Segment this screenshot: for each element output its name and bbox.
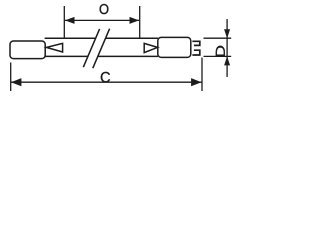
right contact spring upper hairpin bbox=[192, 41, 199, 45]
dimension C line bbox=[11, 81, 202, 83]
tube bottom line left segment bbox=[45, 55, 88, 57]
break slash 1 bbox=[83, 29, 99, 67]
tube top line left segment bbox=[45, 37, 96, 39]
label C bbox=[101, 72, 110, 83]
label O bbox=[100, 4, 109, 14]
tube bottom line right segment bbox=[98, 55, 158, 57]
dimension O right extension line bbox=[139, 6, 141, 39]
tube top line right segment bbox=[106, 37, 158, 39]
dimension C left extension line bbox=[10, 63, 12, 92]
dimension C right extension line bbox=[201, 58, 203, 92]
dimension O right arrowhead bbox=[130, 17, 140, 24]
right pinch seal triangle bbox=[144, 43, 157, 52]
dimension D line bbox=[226, 19, 228, 77]
dimension O left extension line bbox=[63, 6, 65, 38]
right contact spring lower hairpin bbox=[192, 50, 199, 55]
dimension D bottom extension line bbox=[204, 55, 232, 57]
dimension D top extension line bbox=[204, 37, 232, 39]
dimension C right arrowhead bbox=[191, 78, 201, 86]
left pinch seal triangle bbox=[46, 43, 62, 52]
dimension C left arrowhead bbox=[11, 78, 21, 86]
dimension D bottom arrowhead bbox=[224, 56, 230, 65]
label D bbox=[216, 46, 225, 57]
lamp left cap bbox=[10, 41, 45, 59]
dimension O left arrowhead bbox=[65, 17, 75, 24]
break slash 2 bbox=[93, 29, 110, 68]
lamp right cap bbox=[158, 37, 191, 57]
dimension O line bbox=[65, 19, 139, 21]
dimension D top arrowhead bbox=[224, 29, 230, 38]
